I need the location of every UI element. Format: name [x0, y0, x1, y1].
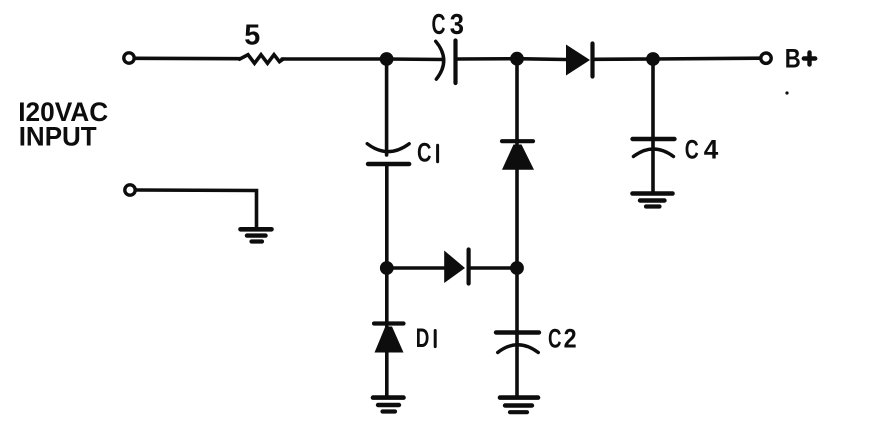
label C4 — [685, 134, 719, 164]
wire node D to diode D2 — [387, 266, 447, 270]
label C2 — [548, 324, 577, 354]
svg-text:INPUT: INPUT — [19, 122, 97, 152]
label C3 — [432, 9, 465, 41]
diode D4 (shunt diode pointing up) — [502, 141, 534, 170]
svg-text:C: C — [417, 138, 432, 168]
svg-text:4: 4 — [704, 134, 719, 164]
capacitor C4 — [633, 139, 675, 157]
node A junction — [380, 52, 394, 66]
wire node A down to C1 — [385, 59, 389, 155]
output terminal B+ — [761, 53, 771, 63]
wire node D down to D1 — [385, 268, 389, 397]
diode D3 (series output diode) — [566, 44, 593, 77]
svg-text:C: C — [432, 9, 446, 41]
label INPUT — [19, 122, 97, 152]
input terminal T2 — [125, 185, 135, 195]
ground G1 under D1 — [373, 398, 404, 412]
svg-text:D: D — [416, 323, 430, 353]
wire resistor to node A — [282, 57, 386, 61]
wire T2 to ground G4 — [136, 190, 257, 228]
input terminal T1 — [124, 53, 134, 63]
node B junction — [510, 52, 524, 66]
wire node C to output terminal — [653, 56, 760, 60]
capacitor C3 — [436, 41, 456, 84]
resistor R 5 ohm — [240, 55, 284, 64]
wire T1 to resistor — [135, 56, 240, 60]
label 5 — [244, 20, 260, 52]
svg-text:B: B — [785, 43, 801, 73]
ink speck — [785, 91, 788, 94]
label C1 — [417, 138, 438, 168]
node C junction — [646, 52, 660, 66]
wire diode D2 to node E — [471, 266, 517, 270]
svg-text:C: C — [685, 134, 699, 164]
wire node C down through C4 to ground — [651, 59, 655, 193]
label B+ — [785, 43, 815, 73]
capacitor C2 — [496, 333, 539, 353]
wire node B down through diode D4 to node E — [515, 59, 519, 268]
ground G2 under C2 — [500, 398, 538, 413]
wire node A to C3 — [387, 57, 444, 61]
diode D1 (shunt diode pointing up) — [374, 324, 404, 353]
svg-text:5: 5 — [244, 20, 260, 52]
wire diode D3 to node C — [595, 57, 654, 61]
label D1 — [416, 323, 436, 353]
node D junction — [380, 261, 394, 275]
svg-text:3: 3 — [450, 9, 464, 41]
wire node B to diode D3 — [517, 57, 566, 61]
ground G3 under C4 — [633, 194, 673, 207]
diode D2 (doubler series diode) — [444, 250, 468, 284]
wire node E down through C2 to ground — [515, 268, 519, 397]
node E junction — [510, 261, 524, 275]
svg-text:C: C — [548, 324, 562, 354]
svg-text:2: 2 — [564, 324, 577, 354]
wire C1 down to node D — [385, 164, 389, 268]
wire C3 to node B — [458, 57, 518, 61]
label 120VAC — [18, 97, 108, 127]
ground G4 — [241, 229, 272, 241]
capacitor C1 — [367, 144, 409, 164]
